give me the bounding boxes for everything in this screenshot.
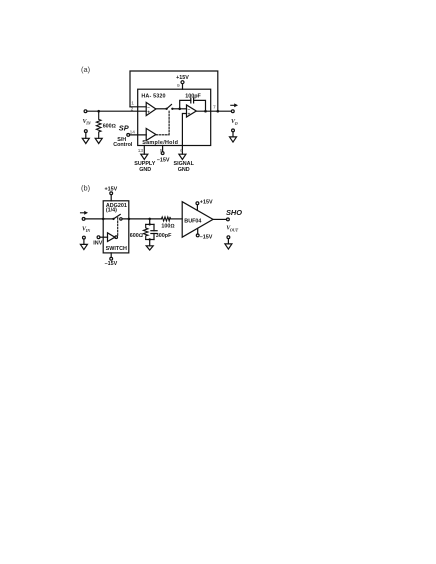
svg-text:600Ω: 600Ω (103, 124, 116, 130)
svg-text:13: 13 (138, 148, 144, 154)
svg-text:–15V: –15V (157, 158, 170, 164)
svg-text:–15V: –15V (105, 261, 118, 267)
svg-text:9: 9 (177, 83, 180, 89)
svg-text:HA- 5320: HA- 5320 (141, 93, 165, 99)
svg-text:GND: GND (139, 167, 151, 173)
svg-text:Control: Control (113, 142, 133, 148)
svg-text:100pF: 100pF (185, 94, 201, 100)
svg-text:SUPPLY: SUPPLY (134, 161, 155, 167)
svg-text:5: 5 (160, 148, 163, 154)
svg-text:+15V: +15V (176, 75, 189, 81)
svg-text:GND: GND (178, 167, 190, 173)
svg-text:(b): (b) (81, 184, 90, 193)
svg-text:7: 7 (213, 104, 216, 110)
svg-text:BUF04: BUF04 (184, 218, 201, 224)
svg-text:6: 6 (180, 148, 183, 154)
svg-text:SIGNAL: SIGNAL (174, 161, 195, 167)
svg-text:Sample/Hold: Sample/Hold (142, 140, 178, 146)
svg-text:1: 1 (131, 100, 134, 106)
svg-text:OUT: OUT (230, 227, 239, 232)
svg-text:SWITCH: SWITCH (106, 246, 127, 252)
svg-text:(1/4): (1/4) (106, 207, 117, 213)
svg-text:+15V: +15V (200, 200, 213, 206)
svg-text:SHO: SHO (226, 208, 242, 217)
svg-text:O: O (235, 121, 238, 126)
svg-text:2: 2 (131, 106, 134, 112)
svg-text:(a): (a) (81, 65, 90, 74)
svg-text:300pF: 300pF (156, 233, 172, 239)
svg-text:INV: INV (93, 240, 102, 246)
svg-text:–15V: –15V (200, 235, 213, 241)
svg-text:+: + (147, 109, 150, 114)
svg-text:14: 14 (130, 130, 136, 136)
svg-text:SP: SP (119, 124, 129, 133)
svg-text:100Ω: 100Ω (161, 223, 174, 229)
svg-text:+: + (188, 112, 191, 117)
svg-text:+15V: +15V (105, 187, 118, 193)
svg-text:600Ω: 600Ω (130, 233, 143, 239)
